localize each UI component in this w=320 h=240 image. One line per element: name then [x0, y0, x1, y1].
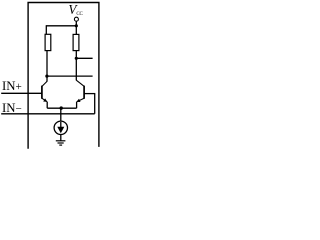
node right collector junction — [75, 57, 78, 60]
wire left output stub — [47, 75, 93, 77]
wire Q2 base lead — [84, 93, 95, 95]
wire Q2 emitter drop — [76, 102, 78, 108]
wire Q1 emitter drop — [46, 102, 48, 109]
wire right resistor top lead — [75, 26, 77, 35]
wire right collector riser — [75, 58, 77, 80]
svg-text:IN+: IN+ — [2, 79, 22, 93]
boundary frame (open box) — [28, 3, 99, 149]
wire right output stub — [76, 57, 92, 59]
wire left resistor top lead — [45, 25, 47, 34]
transistor Q1 — [42, 81, 48, 102]
node left collector junction — [45, 75, 48, 78]
wire current source bottom lead — [60, 134, 62, 140]
current source I1 — [54, 121, 67, 134]
wire right resistor bottom lead — [75, 51, 77, 59]
wire top rail — [46, 25, 76, 27]
svg-text:IN−: IN− — [2, 101, 22, 115]
Vcc terminal circle — [74, 17, 78, 21]
wire common emitter rail — [47, 107, 76, 109]
resistor R2 — [73, 34, 79, 50]
wire tail lead — [60, 108, 62, 121]
resistor R1 — [45, 34, 51, 50]
ground — [56, 141, 66, 145]
wire IN- input — [1, 113, 95, 115]
node Vcc rail junction — [75, 24, 78, 27]
svg-text:CC: CC — [76, 12, 83, 17]
wire IN+ input — [1, 92, 42, 94]
node tail junction — [60, 106, 63, 109]
wire left collector riser — [46, 51, 48, 82]
wire Vcc lead — [75, 21, 77, 26]
transistor Q2 — [76, 80, 84, 102]
wire IN- riser to Q2 base — [94, 94, 96, 114]
